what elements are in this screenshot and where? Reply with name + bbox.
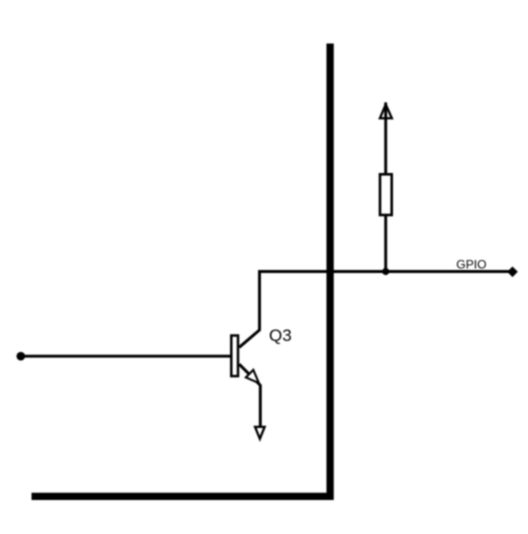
wire: base input: [21, 355, 231, 358]
transistor Q3 emitter wire: [239, 364, 260, 427]
terminal dot at base input: [17, 352, 26, 361]
wire: pull-up branch vertical: [384, 103, 387, 272]
svg-text:Q3: Q3: [269, 326, 292, 345]
resistor R (pull-up): [380, 174, 392, 215]
junction dot at resistor/GPIO net: [382, 268, 389, 275]
transistor Q3 emitter arrowhead: [246, 370, 259, 383]
svg-text:GPIO: GPIO: [456, 258, 486, 272]
wire: collector to GPIO net: [239, 272, 512, 348]
ground arrow (down, open triangle): [255, 427, 265, 439]
transistor Q3 base bar: [231, 336, 238, 377]
thick bus line (vertical + bottom horizontal): [32, 44, 331, 497]
power arrow (up, open triangle): [380, 105, 392, 119]
terminal diamond at GPIO end: [508, 267, 517, 276]
